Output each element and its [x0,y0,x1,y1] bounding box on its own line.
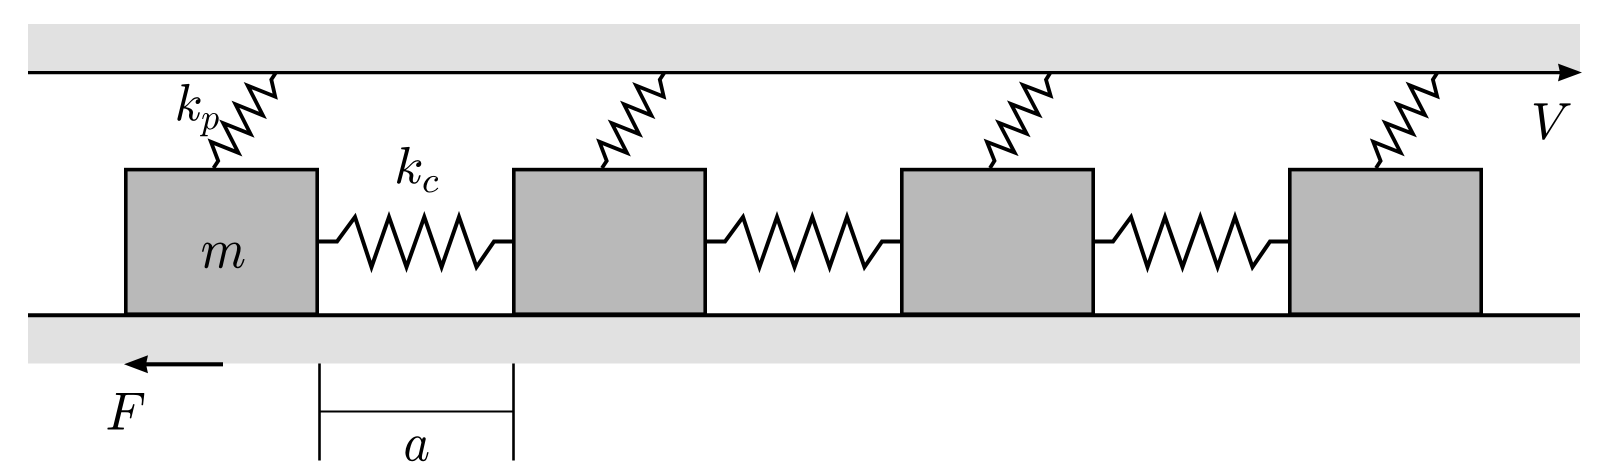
label m (mass) [202,243,245,269]
bottom substrate [28,317,1580,364]
mass block m2 [514,170,705,315]
plate spring kp4 [1373,73,1437,169]
V arrowhead [1558,64,1582,82]
plate spring kp3 [987,73,1051,169]
label a (lattice spacing) [405,436,428,461]
mass block m1 [126,170,317,315]
label k_c [397,147,438,193]
lattice spacing marker bar [320,411,514,413]
lattice spacing marker left tick [318,364,321,461]
label V [1534,103,1571,139]
lattice spacing marker right tick [512,364,515,461]
force F arrow shaft [146,362,223,366]
plate spring kp1 [211,73,276,169]
top plate line (V arrow shaft) [28,71,1560,74]
top driving plate [28,24,1580,71]
coupling spring kc3 [1095,217,1288,267]
mass block m3 [902,170,1093,315]
plate spring kp2 [599,73,664,169]
coupling spring kc1 [319,217,512,267]
label F [107,393,144,430]
F arrowhead [124,355,148,373]
mass block m4 [1290,170,1481,315]
coupling spring kc2 [707,217,900,267]
label k_p [177,84,218,136]
substrate top line [28,313,1580,317]
